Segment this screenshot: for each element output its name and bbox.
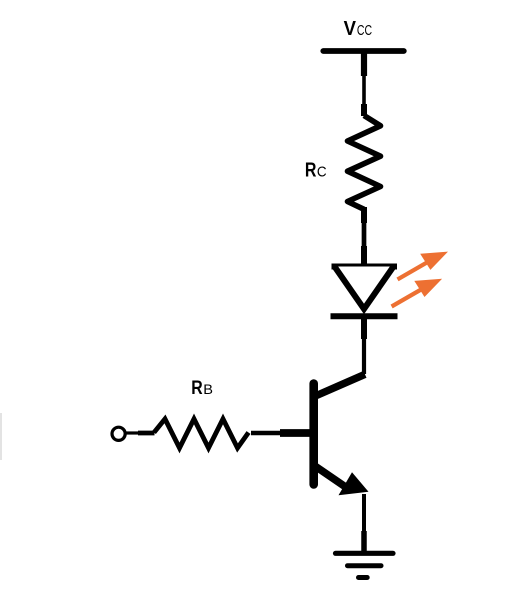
ground symbol [336,553,394,577]
svg-text:C: C [317,163,327,179]
resistor RC [348,116,381,210]
LED D1 triangle (anode) [332,264,398,270]
wire terminal to RB [125,431,140,434]
resistor RB [154,419,249,448]
LED light arrow 1 [398,252,449,280]
VCC power rail [323,48,404,54]
wire RC bottom to LED anode [361,207,367,264]
label RB [191,376,213,398]
svg-text:R: R [305,159,317,181]
transistor Q1 emitter lead [312,464,350,490]
transistor Q1 emitter arrowhead [339,472,369,495]
wire emitter to ground [362,494,366,552]
label VCC [344,17,372,40]
wire LED cathode to collector [361,319,367,374]
wire VCC rail to RC top [361,51,367,116]
label RC [305,159,327,181]
edge artifact [0,413,2,460]
input terminal circle [112,427,125,440]
transistor Q1 base bar [309,384,318,485]
LED light arrow 2 [392,279,443,307]
wire base lead [251,431,312,436]
svg-text:R: R [191,376,202,398]
transistor Q1 collector lead [312,374,365,397]
svg-text:CC: CC [357,23,372,39]
LED D1 cathode bar [331,313,398,319]
svg-text:B: B [203,382,213,398]
svg-text:V: V [344,17,356,40]
